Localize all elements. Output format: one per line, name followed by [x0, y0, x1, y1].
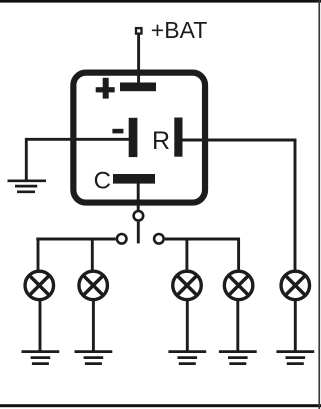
ground (left chassis ground) [8, 181, 47, 192]
ground under L3 [168, 352, 206, 364]
minus sign of - terminal [112, 129, 123, 134]
lamp L2 [79, 271, 108, 300]
C terminal bar [113, 174, 155, 184]
svg-text:+BAT: +BAT [151, 17, 207, 43]
lamp L5 [281, 271, 310, 300]
wire from - terminal to left ground [25, 138, 129, 141]
R terminal bar (right contact) [174, 118, 182, 157]
wire switch left branch [36, 238, 115, 241]
wire lamp L1 to ground [39, 300, 42, 351]
node C output terminal circle [134, 211, 144, 221]
svg-text:C: C [94, 168, 111, 195]
wire down to lamp L1 [37, 238, 40, 271]
+ terminal bar [120, 83, 156, 92]
wire lamp L5 to ground [294, 300, 297, 351]
wire down right side to lamp L5 [294, 139, 297, 272]
wire down to lamp L3 [185, 239, 188, 271]
wire lamp L4 to ground [236, 300, 239, 351]
ground under L4 [219, 352, 257, 364]
wire from R terminal to right lamp [182, 139, 296, 142]
node +BAT terminal square [136, 28, 142, 33]
wire from +BAT to relay + terminal [137, 35, 140, 85]
ground under L1 [22, 352, 60, 364]
lamp L4 [224, 271, 253, 300]
ground under L5 [276, 352, 314, 364]
wire lamp L3 to ground [186, 300, 189, 351]
svg-text:R: R [152, 127, 170, 155]
wire down to lamp L2 [91, 239, 94, 271]
wire switch right branch [165, 238, 240, 241]
- terminal bar (left contact) [129, 118, 138, 157]
switch contact left [117, 234, 127, 244]
plus sign of + terminal [96, 78, 115, 99]
ground under L2 [75, 352, 113, 364]
wire from C terminal down [137, 183, 140, 211]
wire down to lamp L4 [237, 238, 240, 271]
lamp L1 [25, 271, 54, 300]
flasher relay U1 box [73, 73, 205, 203]
wire down to left ground [25, 138, 28, 181]
wire lamp L2 to ground [92, 300, 95, 351]
switch contact right [154, 234, 164, 244]
lamp L3 [173, 271, 202, 300]
switch blade wire [137, 222, 140, 244]
